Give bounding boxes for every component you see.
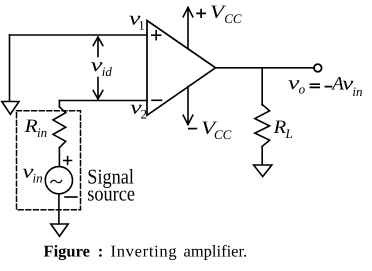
svg-text:source: source bbox=[87, 182, 135, 206]
op-amp minus input sign bbox=[152, 99, 162, 101]
svg-text:Inverting: Inverting bbox=[111, 242, 178, 261]
wire Rin to source bbox=[58, 148, 60, 167]
wire output bbox=[216, 67, 314, 69]
v_id down arrow bbox=[93, 78, 103, 100]
polarity minus bbox=[65, 196, 77, 198]
dashed box signal source bbox=[17, 111, 81, 210]
op-amp plus input sign bbox=[152, 31, 161, 40]
svg-text:CC: CC bbox=[214, 127, 232, 142]
svg-text:in: in bbox=[352, 84, 362, 99]
svg-text:R: R bbox=[273, 117, 287, 138]
op-amp U1 bbox=[147, 21, 216, 116]
svg-text::: : bbox=[98, 242, 104, 261]
ground bottom bbox=[51, 224, 68, 236]
-Vcc supply arrow bbox=[183, 86, 193, 124]
svg-text:in: in bbox=[33, 171, 43, 186]
svg-text:2: 2 bbox=[141, 107, 148, 122]
ground under RL bbox=[254, 165, 272, 177]
wire bottom horizontal to inverting input bbox=[59, 100, 147, 102]
wire top-left vertical bbox=[9, 35, 11, 101]
output terminal bbox=[314, 64, 322, 72]
wire RL branch bbox=[261, 68, 263, 105]
label +Vcc bbox=[196, 9, 206, 18]
v_id up arrow bbox=[93, 37, 103, 57]
svg-text:o: o bbox=[299, 81, 306, 96]
svg-text:in: in bbox=[37, 125, 47, 140]
wire RL to ground bbox=[261, 146, 263, 164]
resistor Rin bbox=[53, 107, 66, 148]
svg-text:amplifier.: amplifier. bbox=[184, 242, 248, 261]
svg-text:1: 1 bbox=[138, 17, 145, 32]
label -Vcc bbox=[188, 128, 197, 130]
svg-text:R: R bbox=[23, 116, 38, 137]
wire top horizontal to noninverting input bbox=[10, 34, 148, 36]
+Vcc supply arrow bbox=[183, 7, 193, 49]
svg-text:Figure: Figure bbox=[44, 242, 90, 261]
source V1 circle bbox=[45, 167, 72, 194]
svg-text:CC: CC bbox=[224, 11, 242, 26]
svg-text:L: L bbox=[285, 126, 293, 141]
svg-text:id: id bbox=[102, 64, 113, 79]
resistor Rin stub bbox=[58, 101, 60, 107]
resistor RL bbox=[255, 105, 270, 147]
ground left bbox=[2, 102, 19, 115]
polarity plus bbox=[64, 157, 72, 165]
wire source to ground bbox=[58, 194, 60, 224]
source tilde bbox=[51, 180, 62, 182]
